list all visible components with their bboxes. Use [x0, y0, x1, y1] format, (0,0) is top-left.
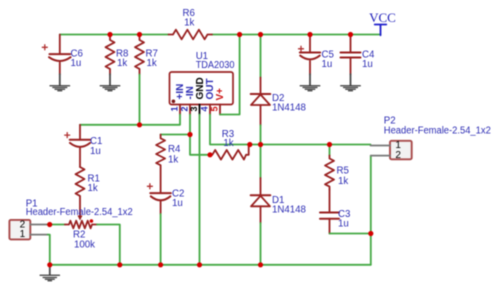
junction dots OUT line [247, 142, 332, 147]
U1 pin 2 (-IN) [179, 86, 196, 114]
resistor R3 [210, 145, 249, 160]
connector P2 [371, 140, 412, 161]
junction dot R3 left [207, 152, 212, 157]
resistor R5 [325, 145, 334, 190]
svg-text:1k: 1k [117, 58, 127, 69]
label R7 value [146, 49, 158, 70]
junction dot R7/+IN line [137, 122, 142, 127]
junction dots bottom rail [47, 262, 263, 267]
svg-text:1u: 1u [362, 59, 373, 70]
capacitor C2 [147, 184, 171, 214]
label R2 value [73, 230, 95, 251]
wire P1 pin1 to ground rail [48, 235, 50, 265]
svg-text:5: 5 [209, 106, 219, 111]
label R1 value [88, 174, 100, 195]
U1 pin 1 (+IN) [169, 84, 186, 115]
label R3 value [222, 129, 234, 149]
U1 pin 4 (OUT) [199, 78, 216, 114]
op-amp U1 TDA2030 [170, 72, 234, 105]
wire R7 to +IN line [139, 75, 141, 125]
label C6 value [71, 49, 83, 70]
label D2 value [272, 93, 306, 114]
svg-text:Header-Female-2.54_1x2: Header-Female-2.54_1x2 [26, 207, 133, 218]
label U1 [196, 51, 235, 71]
label R6 value [183, 8, 195, 28]
junction dots top rail [107, 32, 353, 37]
ground at P1 [40, 265, 59, 281]
svg-text:4: 4 [199, 106, 209, 111]
wire C2 to bottom rail [160, 214, 162, 265]
label R8 value [116, 49, 128, 70]
svg-text:1k: 1k [147, 58, 157, 69]
svg-text:TDA2030: TDA2030 [196, 60, 235, 71]
label P2 [384, 116, 491, 137]
capacitor C5 [299, 35, 321, 86]
capacitor C3 [320, 190, 339, 234]
wire bottom ground rail [50, 264, 371, 266]
wire -IN net [161, 115, 210, 155]
wire R2 right to bottom rail [97, 225, 120, 265]
ground under C4 [341, 86, 361, 91]
wire V+ to rail [220, 35, 240, 115]
ground under C6 [50, 86, 70, 91]
capacitor C6 [42, 35, 70, 86]
svg-text:1k: 1k [184, 17, 194, 28]
label C3 value [338, 209, 350, 230]
svg-text:1k: 1k [88, 183, 98, 194]
ground under C5 [300, 86, 320, 91]
svg-text:1: 1 [20, 229, 26, 240]
svg-text:1u: 1u [90, 146, 101, 157]
svg-text:3: 3 [189, 106, 199, 111]
connector P1 [9, 220, 47, 241]
svg-text:1u: 1u [172, 198, 183, 209]
label C5 value [322, 50, 334, 71]
wire OUT net [210, 115, 371, 145]
svg-text:1k: 1k [168, 154, 178, 165]
svg-text:Header-Female-2.54_1x2: Header-Female-2.54_1x2 [384, 126, 491, 137]
svg-text:1k: 1k [338, 176, 348, 187]
svg-text:1N4148: 1N4148 [272, 205, 306, 216]
label R4 value [168, 144, 181, 165]
svg-text:V+: V+ [215, 88, 226, 101]
label C1 value [90, 136, 102, 157]
U1 pin 3 (GND) [189, 77, 206, 114]
power flag VCC [369, 10, 396, 35]
svg-text:R5: R5 [337, 166, 349, 177]
diode D2 1N4148 [251, 35, 271, 145]
svg-text:1N4148: 1N4148 [272, 103, 306, 114]
resistor R7 [135, 35, 144, 75]
capacitor C1 [65, 125, 91, 167]
junction dot -IN [187, 132, 192, 137]
resistor R2 [65, 221, 97, 229]
svg-text:1k: 1k [223, 138, 233, 149]
wire P1 pin2 to R2 [48, 224, 65, 226]
resistor R4 [156, 135, 165, 194]
svg-text:1u: 1u [322, 59, 333, 70]
svg-text:1u: 1u [338, 219, 349, 230]
svg-text:2: 2 [179, 106, 189, 111]
ground under R8 [100, 86, 120, 91]
U1 pin 5 (V+) [209, 88, 226, 115]
label C2 value [172, 189, 184, 210]
junction dot P1 pin2 [47, 222, 52, 227]
wire C3 to P2 pin2 net [330, 233, 371, 235]
svg-text:1: 1 [169, 106, 179, 111]
label D1 value [272, 195, 306, 216]
svg-text:1u: 1u [71, 58, 82, 69]
svg-text:100k: 100k [74, 239, 95, 250]
svg-text:2: 2 [395, 150, 401, 161]
capacitor C4 [341, 35, 361, 86]
wire top power rail [60, 34, 381, 36]
diode D1 1N4148 [251, 145, 271, 265]
junction dot C3 line [368, 231, 373, 236]
R1 pin end arrow [78, 216, 83, 221]
wire GND pin to bottom rail [199, 115, 201, 265]
wire +IN line [80, 115, 180, 125]
resistor R8 [106, 35, 115, 75]
junction dot R1/R2 [90, 219, 94, 223]
wire P2 pin2 vertical [370, 156, 372, 265]
label C4 value [362, 50, 375, 71]
svg-text:VCC: VCC [369, 10, 396, 25]
label P1 [26, 199, 133, 218]
label R5 value [337, 166, 349, 188]
resistor R1 [76, 167, 85, 217]
resistor R6 [169, 30, 213, 40]
